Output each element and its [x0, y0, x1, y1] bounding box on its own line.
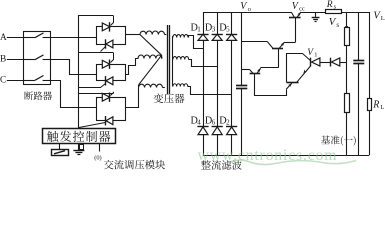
- svg-text:R: R: [326, 0, 333, 10]
- svg-text:R: R: [372, 99, 379, 110]
- capacitor C2: [353, 60, 364, 62]
- diode D2: [227, 127, 237, 135]
- wire V1 to D7: [320, 62, 331, 64]
- wire gate feed 3: [78, 87, 101, 89]
- thyristor VT2a: [102, 60, 110, 68]
- label 交流调压模块: [104, 160, 165, 170]
- wire module1 out: [125, 34, 140, 36]
- diode D4: [198, 127, 208, 135]
- wire C to module 3: [51, 81, 97, 108]
- label 基准(一): [321, 135, 356, 145]
- transformer primary winding 2: [138, 55, 162, 59]
- svg-text:2: 2: [226, 119, 230, 127]
- svg-text:cc: cc: [299, 6, 305, 13]
- circuit breaker box: [24, 32, 51, 85]
- wire D7 to R chain: [340, 62, 347, 64]
- wire cap C1 branch: [241, 12, 243, 85]
- thyristor module box 3: [97, 98, 126, 121]
- label 触发控制器: [47, 131, 110, 142]
- svg-text:(0): (0): [94, 155, 101, 162]
- resistor R_s: [326, 10, 342, 14]
- diode D1: [198, 34, 208, 40]
- wire cap C2 branch: [358, 12, 360, 60]
- transformer primary winding 3: [139, 84, 163, 87]
- capacitor C1: [236, 85, 247, 87]
- wire V1 node down: [346, 62, 348, 93]
- wire T3 emitter diag: [297, 66, 311, 83]
- wire T2 base: [242, 69, 250, 71]
- thyristor VT3a: [102, 93, 110, 101]
- bus V_o top: [203, 12, 291, 14]
- wire phase B input: [7, 59, 24, 61]
- thyristor VT1b: [106, 40, 113, 48]
- svg-text:C: C: [0, 76, 6, 86]
- breaker switch contact: [24, 80, 35, 82]
- thyristor module box 1: [97, 27, 126, 45]
- svg-text:s: s: [336, 21, 339, 29]
- resistor R2: [345, 94, 350, 113]
- wire phase A input: [7, 37, 24, 39]
- transistor T1: [267, 41, 273, 48]
- transformer core: [167, 25, 169, 94]
- wire phase C input: [7, 80, 24, 82]
- wire gate feed 4: [78, 93, 113, 95]
- svg-text:6: 6: [212, 119, 216, 127]
- transformer secondary winding 1: [173, 35, 188, 38]
- svg-text:5: 5: [226, 26, 230, 34]
- wire R1 to V1 node: [346, 45, 348, 62]
- transistor T3: [287, 82, 299, 84]
- rectifier column D5 upper: [231, 12, 233, 155]
- svg-text:1: 1: [314, 52, 317, 59]
- wire T1 collector feed: [242, 41, 267, 43]
- svg-text:1: 1: [197, 26, 201, 34]
- ground symbol: [78, 144, 80, 151]
- diode D6: [212, 127, 222, 135]
- svg-text:3: 3: [212, 26, 216, 34]
- diode D3: [212, 34, 222, 40]
- wire s1 to D1 column: [189, 36, 204, 49]
- junction dot: [345, 26, 348, 29]
- thyristor VT1a: [102, 23, 110, 31]
- wire s3 to D5 column: [188, 87, 232, 95]
- transformer secondary winding 2: [173, 57, 189, 60]
- node (0) stub: [99, 144, 101, 152]
- wire T2 emitter to T1 base: [260, 67, 278, 69]
- wire delta diag 1: [140, 35, 162, 56]
- thyristor VT2b: [106, 77, 113, 85]
- label 断路器: [24, 91, 52, 100]
- watermark underline: [227, 160, 356, 164]
- wire T2 collector path: [255, 74, 287, 96]
- diode D7: [330, 58, 332, 67]
- transformer primary winding 1: [140, 31, 165, 35]
- wire module2 out: [126, 59, 139, 75]
- transformer secondary winding 3: [173, 84, 188, 87]
- rail V_cc: [301, 12, 370, 14]
- diode D5: [227, 34, 237, 40]
- svg-text:A: A: [0, 33, 7, 43]
- breaker switch contact: [24, 59, 35, 61]
- breaker switch contact: [24, 37, 35, 39]
- rectifier column D3 upper: [217, 12, 219, 155]
- wire gate feed 1: [78, 15, 113, 17]
- label 整流滤波: [201, 160, 242, 170]
- wire delta diag 2: [139, 55, 162, 85]
- svg-text:B: B: [0, 55, 6, 65]
- wire gate feed 2: [78, 52, 113, 54]
- wire s2 to D3 column: [189, 60, 218, 67]
- label 变压器: [154, 93, 185, 103]
- power symbol box: [52, 150, 69, 156]
- bus negative bottom: [203, 155, 369, 157]
- wire T1 emitter to T0 collector: [284, 42, 295, 44]
- wire A to module 1: [51, 37, 97, 39]
- wire load branch: [369, 12, 371, 98]
- resistor R1: [345, 28, 350, 46]
- rectifier column D1 upper: [203, 12, 205, 155]
- transistor T2: [250, 70, 253, 74]
- svg-text:L: L: [381, 15, 385, 22]
- wire B to module 2: [51, 60, 97, 75]
- thyristor V1: [310, 58, 312, 67]
- svg-text:4: 4: [197, 119, 201, 127]
- wire T1 base lead: [278, 48, 280, 67]
- wire R2 bottom: [346, 112, 348, 155]
- wire gate riser: [78, 15, 80, 128]
- resistor R_L: [368, 99, 372, 111]
- thyristor VT3b: [106, 117, 113, 125]
- thyristor module box 2: [97, 65, 126, 81]
- secondary star bus: [172, 36, 174, 86]
- wire R1 top: [346, 12, 348, 27]
- wire module3 out: [126, 88, 139, 108]
- transistor T0 pass: [291, 12, 294, 17]
- rail ground symbol: [315, 12, 317, 17]
- wire T3 gate lead: [287, 54, 303, 83]
- svg-text:L: L: [380, 104, 384, 111]
- power symbol stub: [59, 144, 61, 150]
- trigger controller box: [43, 129, 116, 144]
